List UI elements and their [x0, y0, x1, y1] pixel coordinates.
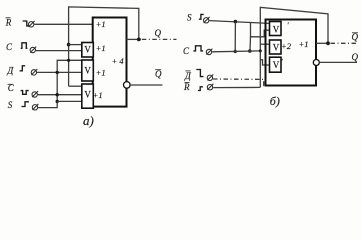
main box b: [266, 20, 317, 86]
svg-text:б): б): [270, 94, 280, 108]
svg-text:R: R: [183, 82, 190, 92]
terminal S: [32, 104, 38, 110]
svg-text:Д: Д: [7, 66, 15, 76]
svg-text:Q: Q: [352, 52, 359, 62]
junction dot Q feedback: [137, 38, 141, 42]
junction dot on C-bar line: [56, 93, 59, 96]
wire D to V2: [37, 71, 82, 73]
svg-text:R: R: [5, 18, 12, 28]
waveform rising step at R input (b): [198, 87, 203, 91]
waveform rising step at D input: [20, 66, 26, 71]
svg-text:′: ′: [281, 57, 283, 66]
svg-text:+1: +1: [93, 90, 103, 100]
inversion bubble Q-bar: [124, 82, 131, 89]
svg-text:V: V: [273, 42, 280, 52]
junction dot staircase on C line: [248, 49, 252, 53]
wire branch B to V3: [57, 100, 82, 102]
wire S to bus B elbow: [38, 60, 82, 107]
wire R to feedback vertical bottom: [213, 86, 260, 88]
terminal C (b): [206, 49, 212, 55]
wire Q-bar dash-dot (b): [331, 42, 359, 44]
terminal D-bar: [207, 74, 213, 80]
wire S to V1: [209, 21, 269, 24]
svg-text:а): а): [83, 113, 94, 128]
terminal C: [30, 47, 36, 53]
wire R to box: [34, 23, 92, 25]
svg-text:+1: +1: [299, 39, 309, 49]
wire C-bar to V3: [38, 94, 82, 96]
svg-text:′: ′: [287, 20, 289, 29]
waveform rising step at S input: [199, 14, 204, 19]
svg-text:V: V: [84, 44, 91, 54]
svg-text:Q: Q: [352, 32, 359, 42]
wire Q output solid part: [127, 38, 141, 40]
junction dot branch to V3: [56, 100, 59, 103]
terminal R: [29, 21, 35, 27]
terminal C-bar: [32, 91, 38, 97]
control box V1 (b): [270, 22, 282, 36]
feedback wire (b): left vertical, top wire, right vertical: [260, 7, 328, 87]
waveform positive pulse at C input: [21, 43, 28, 49]
svg-text:V: V: [273, 60, 280, 70]
junction dot feedback to V1: [67, 43, 71, 47]
svg-text:Q: Q: [155, 69, 162, 79]
junction dot S bus at C line: [234, 50, 237, 53]
wire Q-bar output solid part (b): [316, 42, 328, 44]
wire C to feedback vertical: [212, 50, 260, 53]
svg-text:S: S: [187, 13, 192, 23]
vertical staircase to C line: [249, 37, 252, 51]
terminal D: [31, 69, 37, 75]
control box V1: [82, 43, 94, 58]
waveform falling pulse at R input: [23, 21, 29, 26]
svg-text:+ 4: + 4: [112, 56, 125, 66]
svg-text:+1: +1: [96, 19, 106, 29]
inversion bubble Q (b): [313, 60, 319, 66]
svg-text:V: V: [273, 24, 280, 34]
svg-text:C: C: [6, 42, 13, 52]
control box V2 (b): [270, 40, 282, 54]
feedback wire top (a): [69, 7, 139, 45]
wire C to V1: [36, 50, 82, 52]
waveform rising step at S input: [22, 102, 30, 107]
wire Q output (b): [319, 61, 357, 63]
svg-text:C: C: [183, 46, 190, 56]
terminal S (b): [204, 17, 210, 23]
wire D-bar dash-dot to box bottom: [213, 79, 266, 86]
svg-text:V: V: [84, 66, 91, 76]
junction dot on D line: [56, 71, 59, 74]
main box a: [93, 18, 127, 107]
control box V3: [82, 84, 94, 108]
waveform positive pulse at C input (b): [193, 46, 203, 51]
wire branch feedback to V2: [260, 43, 269, 45]
svg-text:+2: +2: [281, 41, 292, 51]
feedback vertical lower segment (a): [68, 45, 70, 87]
wire Z branch to V3: [260, 60, 269, 65]
waveform negative pulse at C-bar input: [21, 91, 29, 95]
svg-text:V: V: [84, 89, 91, 99]
wire S bus down to C line: [234, 22, 236, 52]
wire feedback branch to V1: [69, 44, 82, 46]
junction dot Q-bar feedback (b): [326, 41, 330, 45]
junction dot C at feedback vertical: [259, 49, 262, 52]
svg-text:Д: Д: [184, 71, 192, 81]
wire feedback branch to V3 top: [69, 85, 82, 87]
waveform falling step at D-bar input: [196, 70, 203, 77]
wire Q-bar output: [130, 84, 162, 86]
control box V2: [82, 60, 94, 81]
svg-text:+1: +1: [96, 68, 106, 78]
junction dot feedback at V2 branch: [67, 59, 70, 62]
terminal R (b): [207, 84, 213, 90]
svg-text:Q: Q: [155, 28, 162, 38]
wire staircase S to V1 lower: [251, 22, 270, 37]
wire Q output dash-dot: [142, 38, 177, 40]
junction dot on S line: [234, 20, 238, 24]
control box V3 (b): [270, 57, 282, 72]
svg-text:+1: +1: [96, 43, 106, 53]
svg-text:S: S: [8, 100, 13, 110]
